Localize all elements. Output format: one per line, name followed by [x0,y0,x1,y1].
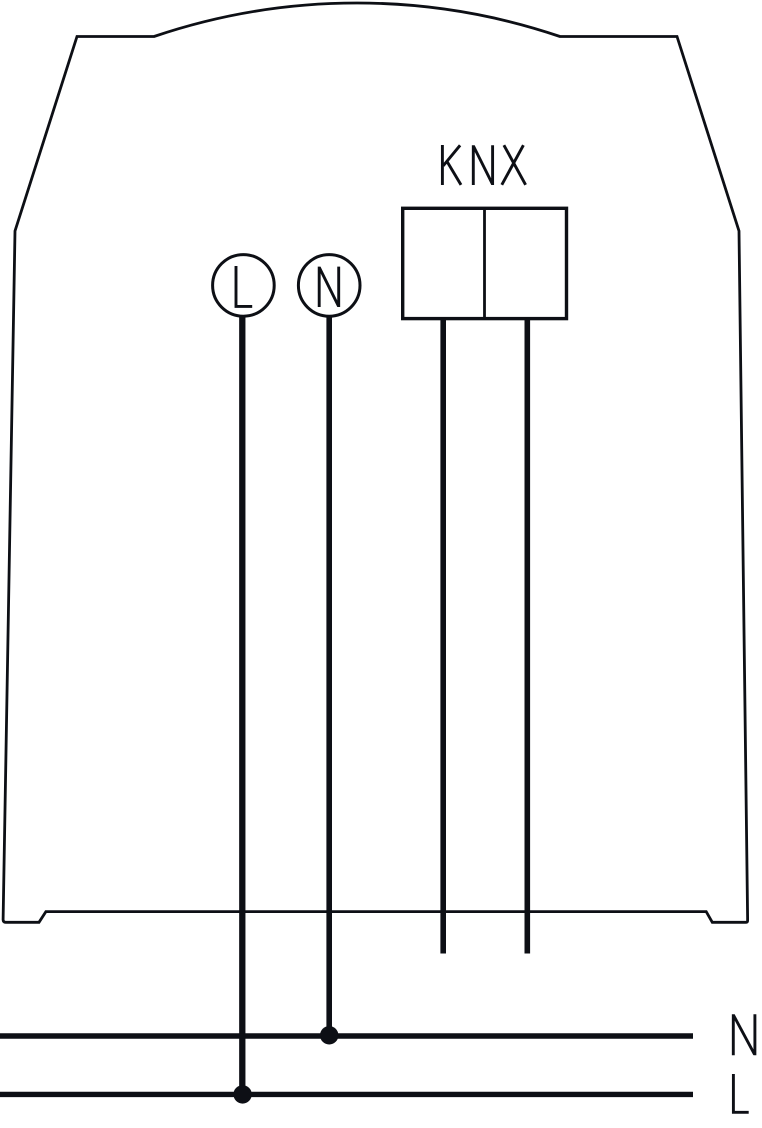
mains L line [0,1092,693,1097]
device housing outline [3,3,748,922]
KNX bus wire 1 [440,319,446,954]
wire N from terminal to N bus [326,316,332,1035]
KNX bus wire 2 [524,319,530,954]
label L at mains [733,1074,748,1112]
label KNX [442,145,525,185]
junction dot on L line [233,1085,251,1103]
letter L in circle [236,266,252,306]
KNX terminal block divider [483,208,486,318]
junction dot on N line [320,1026,338,1044]
label N at mains [733,1014,755,1055]
KNX terminal block box [403,208,567,318]
terminal N circle [298,255,360,317]
mains N line [0,1033,693,1038]
wire L from terminal to L bus [239,316,245,1094]
terminal L circle [213,255,275,317]
letter N in circle [319,267,339,307]
